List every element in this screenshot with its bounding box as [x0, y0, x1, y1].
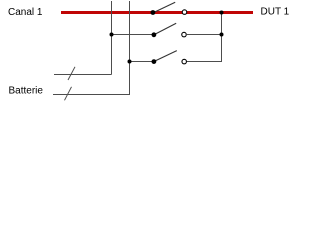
wire: red channel wire Canal 1 to DUT 1 — [61, 11, 253, 14]
wire: row 2 horizontal from switch K2 to right bus — [187, 34, 222, 36]
wire: battery feed upper — [54, 74, 112, 76]
wire: right vertical bus (x=222) — [221, 13, 223, 63]
junction: bus A / row 2 — [110, 33, 114, 37]
svg-text:Batterie: Batterie — [9, 86, 44, 97]
switch K2 (row 2) — [152, 23, 187, 37]
slash mark on lower battery feed — [65, 87, 72, 101]
slash mark on upper battery feed — [68, 67, 75, 80]
junction: right bus / row 2 — [220, 33, 224, 37]
wire: vertical bus B (x=129) — [129, 1, 131, 95]
switch K1 (on red wire) — [151, 2, 187, 15]
wire: vertical bus A (x=111) — [111, 1, 113, 75]
junction: bus B / row 3 — [128, 60, 132, 64]
wire: row 3 horizontal from bus B to switch K3 — [130, 61, 154, 63]
wire: row 2 horizontal from bus A to switch K2 — [112, 34, 154, 36]
switch K3 (row 3) — [152, 51, 187, 64]
junction: right bus / red wire — [220, 11, 224, 15]
wire: row 3 horizontal from switch K3 to right bus — [187, 61, 222, 63]
wire: battery feed lower — [53, 94, 130, 96]
svg-text:DUT 1: DUT 1 — [261, 7, 290, 18]
svg-text:Canal 1: Canal 1 — [8, 7, 43, 18]
